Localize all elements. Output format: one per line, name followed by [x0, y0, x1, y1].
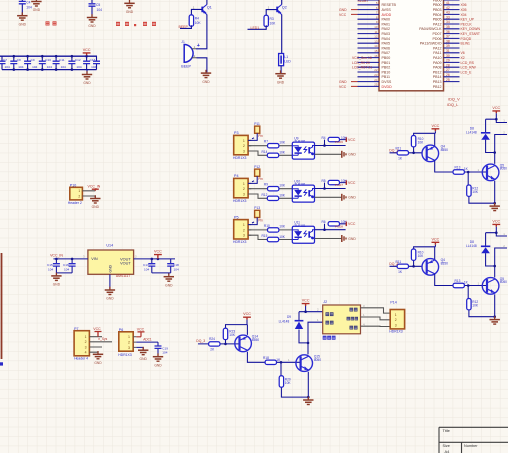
svg-text:R12: R12: [262, 193, 268, 197]
svg-text:PD07: PD07: [433, 32, 442, 36]
svg-text:10K: 10K: [270, 21, 277, 25]
svg-text:26: 26: [446, 73, 450, 77]
svg-text:10K: 10K: [229, 333, 236, 337]
svg-text:12: 12: [374, 35, 378, 39]
svg-text:PB05: PB05: [433, 18, 442, 22]
svg-text:29: 29: [446, 59, 450, 63]
svg-text:13: 13: [374, 39, 378, 43]
svg-text:42: 42: [446, 6, 450, 10]
svg-text:PB13: PB13: [433, 80, 442, 84]
svg-text:R18: R18: [263, 356, 269, 360]
svg-text:HDR1X3: HDR1X3: [389, 329, 402, 333]
svg-text:C8: C8: [17, 58, 21, 62]
svg-text:104: 104: [5, 65, 10, 69]
svg-text:PB10: PB10: [382, 70, 391, 74]
svg-text:33: 33: [446, 15, 450, 19]
svg-text:A4: A4: [445, 449, 451, 453]
svg-text:PB00: PB00: [382, 56, 391, 60]
svg-text:PB01: PB01: [382, 61, 391, 65]
svg-text:U11: U11: [294, 221, 300, 225]
svg-text:Title: Title: [443, 428, 451, 433]
svg-text:VOUT: VOUT: [120, 261, 131, 265]
svg-text:D9: D9: [287, 315, 291, 319]
svg-text:AVSS: AVSS: [382, 8, 392, 12]
svg-text:LCD_R0 20: LCD_R0 20: [352, 61, 370, 65]
svg-text:C15: C15: [47, 263, 53, 267]
svg-text:VIN: VIN: [91, 257, 98, 261]
svg-text:Q2: Q2: [282, 5, 287, 9]
svg-text:10K: 10K: [285, 381, 292, 385]
svg-text:PB04: PB04: [433, 13, 442, 17]
svg-text:15: 15: [374, 49, 378, 53]
svg-text:1: 1: [85, 335, 87, 339]
svg-text:GND: GND: [339, 80, 347, 84]
svg-text:J2: J2: [323, 300, 327, 304]
svg-text:PB11: PB11: [382, 75, 391, 79]
svg-text:3: 3: [85, 345, 87, 349]
svg-text:PA12: PA12: [433, 46, 442, 50]
svg-text:DQ_1: DQ_1: [389, 149, 398, 153]
svg-text:104: 104: [47, 65, 52, 69]
svg-text:U14: U14: [106, 243, 113, 247]
svg-text:P4: P4: [234, 174, 239, 178]
svg-text:3: 3: [395, 323, 397, 327]
svg-text:VCC_Sen 18: VCC_Sen 18: [352, 56, 372, 60]
svg-text:R7: R7: [264, 140, 268, 144]
svg-text:Size: Size: [443, 444, 450, 448]
svg-text:LCD_E: LCD_E: [461, 70, 473, 74]
svg-text:PA12: PA12: [433, 22, 442, 26]
svg-text:GND: GND: [109, 265, 113, 273]
svg-text:24: 24: [374, 78, 378, 82]
svg-text:104: 104: [76, 65, 81, 69]
svg-text:R3: R3: [270, 17, 274, 21]
svg-text:39: 39: [446, 44, 450, 48]
svg-text:38: 38: [446, 39, 450, 43]
svg-text:R9: R9: [264, 183, 268, 187]
svg-text:27: 27: [446, 68, 450, 72]
svg-text:PB12: PB12: [433, 70, 442, 74]
svg-text:2: 2: [85, 340, 87, 344]
svg-text:C11: C11: [59, 58, 65, 62]
svg-text:31: 31: [446, 49, 450, 53]
svg-text:PA06: PA06: [382, 46, 391, 50]
svg-text:LCD_RS: LCD_RS: [461, 61, 475, 65]
svg-text:PA13/SWDIO: PA13/SWDIO: [420, 42, 442, 46]
svg-text:BEEP: BEEP: [181, 64, 191, 68]
svg-text:AVDD: AVDD: [382, 13, 392, 17]
svg-text:FG/QD: FG/QD: [461, 37, 472, 41]
svg-text:L1: L1: [284, 55, 288, 59]
svg-text:VCC_IN: VCC_IN: [50, 254, 63, 258]
svg-text:PB02: PB02: [382, 66, 391, 70]
svg-text:30: 30: [446, 54, 450, 58]
svg-text:C18: C18: [173, 263, 179, 267]
svg-text:/DQ_L: /DQ_L: [447, 102, 459, 107]
svg-text:37: 37: [446, 35, 450, 39]
svg-text:R10: R10: [264, 224, 270, 228]
svg-text:25: 25: [446, 78, 450, 82]
svg-text:C5: C5: [96, 3, 100, 7]
svg-text:1: 1: [395, 313, 397, 317]
svg-text:23: 23: [374, 73, 378, 77]
svg-text:PA10: PA10: [433, 56, 442, 60]
svg-text:PA04: PA04: [382, 37, 391, 41]
svg-text:10K: 10K: [195, 21, 202, 25]
svg-text:22: 22: [374, 68, 378, 72]
svg-text:U10: U10: [294, 179, 300, 183]
svg-text:104: 104: [48, 268, 53, 272]
svg-text:PA08: PA08: [433, 66, 442, 70]
svg-text:R14: R14: [262, 150, 268, 154]
svg-text:104: 104: [91, 65, 96, 69]
svg-text:LCD_RST 21: LCD_RST 21: [352, 66, 372, 70]
svg-text:S1DB7: S1DB7: [358, 0, 369, 3]
svg-text:4: 4: [85, 351, 87, 355]
svg-text:104: 104: [64, 268, 69, 272]
svg-text:104: 104: [32, 65, 37, 69]
svg-text:C4: C4: [26, 0, 30, 4]
svg-text:PA01: PA01: [382, 22, 391, 26]
svg-text:34: 34: [446, 20, 450, 24]
svg-text:PB00: PB00: [433, 3, 442, 7]
svg-text:P5: P5: [234, 215, 239, 219]
svg-text:PA00: PA00: [382, 18, 391, 22]
svg-text:PG07: PG07: [335, 183, 343, 187]
svg-text:BEEP: BEEP: [179, 25, 189, 29]
svg-text:PA05: PA05: [382, 42, 391, 46]
svg-text:n_Sys: n_Sys: [98, 337, 107, 341]
svg-text:8050: 8050: [314, 358, 321, 362]
svg-text:1: 1: [78, 189, 80, 193]
svg-text:R4: R4: [322, 136, 326, 140]
svg-text:AMS1117: AMS1117: [116, 274, 130, 278]
svg-text:43: 43: [446, 11, 450, 15]
svg-text:R24: R24: [209, 337, 215, 341]
svg-text:VCC: VCC: [93, 327, 101, 331]
svg-text:P13: P13: [254, 206, 260, 210]
svg-text:C9: C9: [31, 58, 35, 62]
svg-text:VCC: VCC: [339, 85, 347, 89]
svg-text:J1: J1: [181, 40, 185, 44]
svg-text:V6: V6: [461, 51, 465, 55]
svg-text:C12: C12: [75, 58, 81, 62]
svg-text:PA09: PA09: [433, 61, 442, 65]
svg-text:C16: C16: [63, 263, 69, 267]
svg-text:PG06: PG06: [335, 140, 343, 144]
svg-text:104: 104: [26, 6, 32, 10]
svg-text:104: 104: [97, 8, 103, 12]
svg-text:KEY_DOWN: KEY_DOWN: [461, 27, 481, 31]
svg-text:PA04/SWCLK: PA04/SWCLK: [419, 27, 442, 31]
svg-text:C10: C10: [45, 58, 51, 62]
svg-text:104: 104: [174, 268, 179, 272]
svg-text:ADC1: ADC1: [143, 338, 152, 342]
svg-text:VCC_IN: VCC_IN: [88, 185, 101, 189]
svg-text:10: 10: [374, 25, 378, 29]
svg-text:104: 104: [61, 65, 66, 69]
svg-text:PD06: PD06: [433, 37, 442, 41]
svg-text:KEY_START: KEY_START: [461, 32, 480, 36]
svg-text:BLIN1: BLIN1: [461, 42, 471, 46]
svg-text:RESETB: RESETB: [382, 3, 397, 7]
svg-text:R15: R15: [262, 234, 268, 238]
svg-text:2: 2: [78, 195, 80, 199]
svg-text:R4: R4: [195, 17, 199, 21]
svg-text:KEY_UP: KEY_UP: [461, 18, 475, 22]
svg-text:DVDD: DVDD: [382, 85, 393, 89]
svg-text:HDR1X3: HDR1X3: [118, 353, 131, 357]
svg-text:R5: R5: [322, 179, 326, 183]
svg-text:2: 2: [395, 318, 397, 322]
svg-text:LCD_R/W: LCD_R/W: [461, 66, 477, 70]
svg-text:25: 25: [374, 83, 378, 87]
svg-text:8550: 8550: [252, 338, 260, 342]
svg-text:DQ_2: DQ_2: [389, 262, 398, 266]
svg-text:Header 4: Header 4: [74, 357, 88, 361]
svg-text:PB06: PB06: [433, 0, 442, 2]
svg-text:PB03: PB03: [433, 8, 442, 12]
svg-text:R6: R6: [322, 220, 326, 224]
svg-text:Number: Number: [464, 444, 478, 448]
svg-text:Q1: Q1: [207, 5, 212, 9]
svg-text:35: 35: [446, 25, 450, 29]
svg-text:X04: X04: [461, 13, 467, 17]
svg-text:LED1: LED1: [251, 26, 260, 30]
svg-text:Header 2: Header 2: [68, 201, 82, 205]
svg-text:104: 104: [162, 350, 167, 354]
svg-text:DVSS: DVSS: [382, 80, 392, 84]
svg-text:36: 36: [446, 30, 450, 34]
svg-text:P14: P14: [390, 300, 396, 304]
svg-text:PECLK: PECLK: [461, 22, 473, 26]
svg-text:P3: P3: [234, 131, 239, 135]
svg-text:X06: X06: [461, 3, 467, 7]
svg-text:PB14: PB14: [433, 75, 442, 79]
svg-text:U9: U9: [294, 136, 298, 140]
svg-text:PA11: PA11: [433, 51, 441, 55]
svg-text:GND: GND: [339, 8, 347, 12]
svg-text:P12: P12: [254, 165, 260, 169]
svg-text:VCC: VCC: [137, 328, 145, 332]
svg-text:LED: LED: [284, 60, 291, 64]
svg-text:LL4148: LL4148: [279, 319, 290, 323]
svg-text:X2: X2: [461, 56, 465, 60]
svg-text:X05: X05: [461, 8, 467, 12]
svg-text:11: 11: [374, 30, 377, 34]
svg-text:C17: C17: [143, 263, 149, 267]
svg-text:28: 28: [446, 63, 450, 67]
svg-text:/DQ_V: /DQ_V: [448, 97, 460, 102]
svg-text:P11: P11: [254, 122, 260, 126]
svg-text:PG08: PG08: [335, 224, 343, 228]
svg-text:104: 104: [18, 65, 23, 69]
svg-text:+: +: [197, 43, 200, 49]
svg-text:VCC: VCC: [339, 13, 347, 17]
svg-text:PA02: PA02: [382, 27, 391, 31]
svg-text:14: 14: [374, 44, 378, 48]
svg-text:104: 104: [144, 268, 149, 272]
svg-text:41: 41: [446, 1, 450, 5]
svg-text:PA07: PA07: [382, 51, 391, 55]
svg-text:PB12: PB12: [433, 85, 442, 89]
svg-text:PA03: PA03: [382, 32, 391, 36]
svg-text:DQ_3: DQ_3: [196, 339, 205, 343]
svg-text:16: 16: [374, 54, 378, 58]
